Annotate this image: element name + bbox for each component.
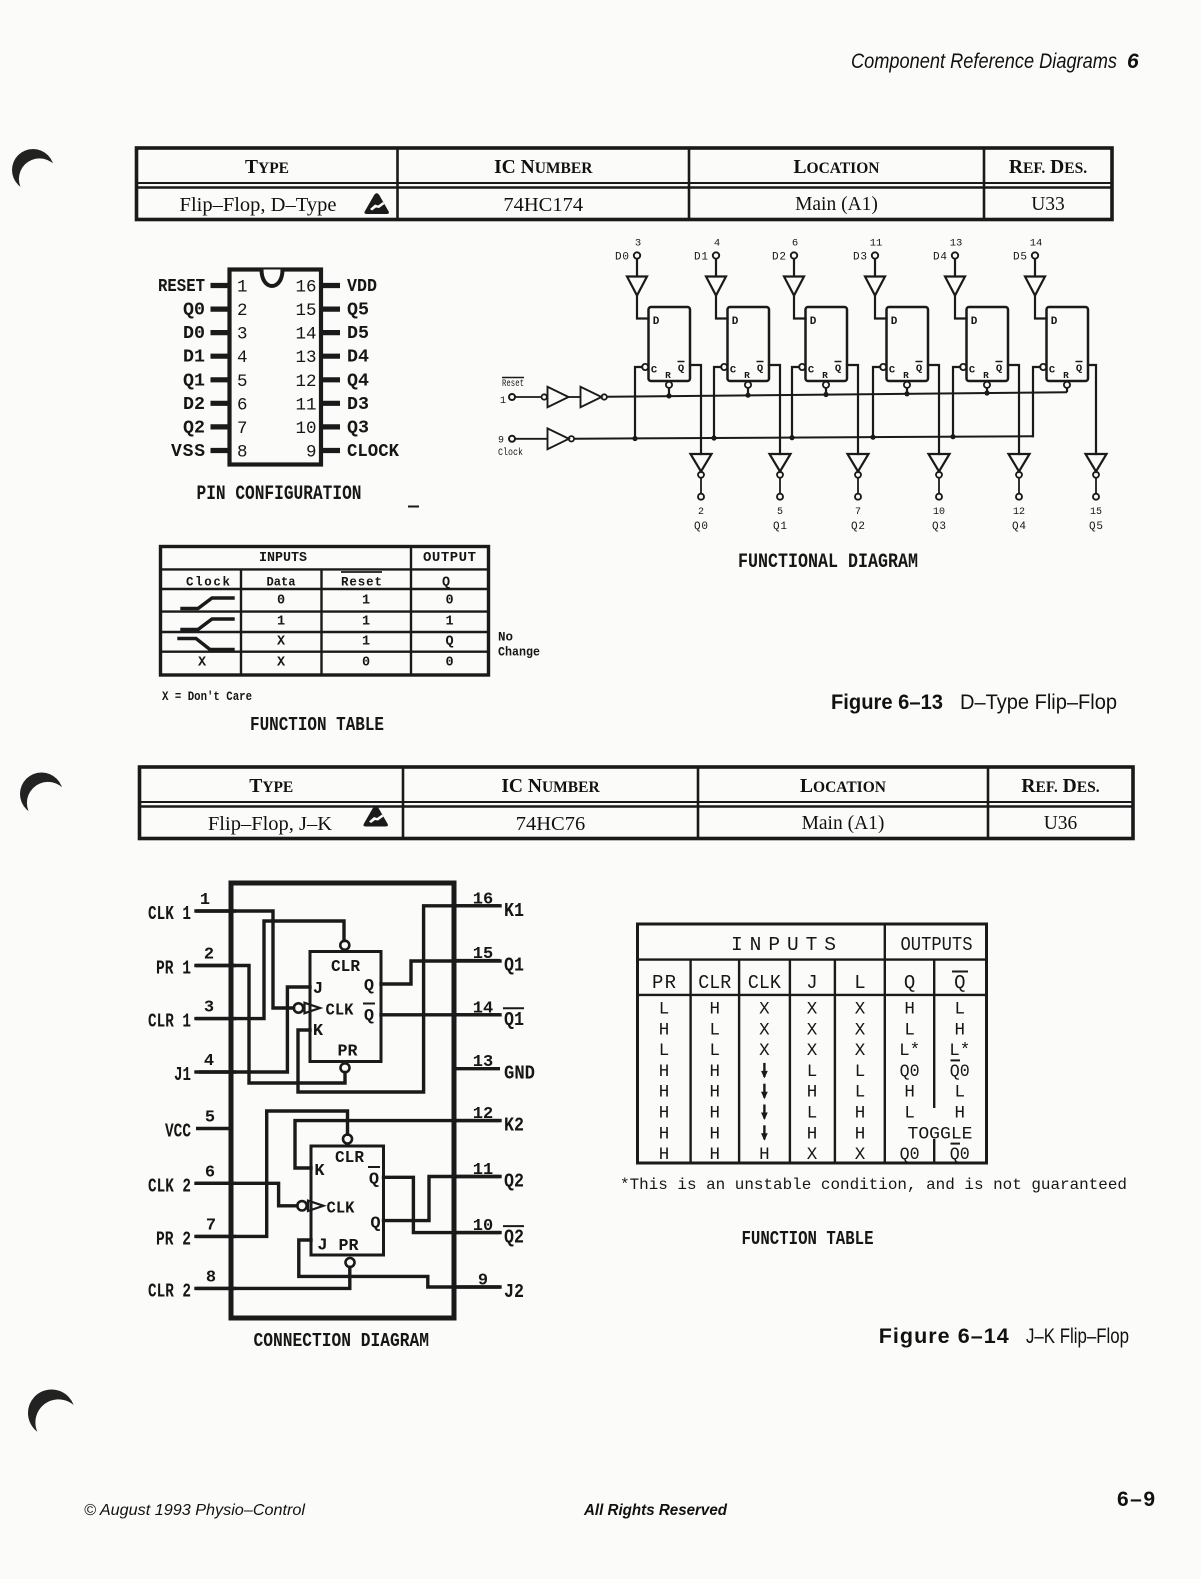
wire clock input to buffer: [515, 438, 547, 440]
svg-text:L*: L*: [949, 1041, 970, 1061]
svg-text:CLR 1: CLR 1: [148, 1011, 191, 1033]
svg-text:Reset: Reset: [341, 576, 382, 590]
svg-text:OUTPUT: OUTPUT: [423, 550, 476, 566]
pin 14 Q-bar lead: [452, 999, 525, 1031]
node Clock input (pin 9): [498, 436, 523, 460]
svg-text:CLR 2: CLR 2: [148, 1280, 191, 1302]
svg-text:X: X: [855, 1145, 866, 1165]
note X dont care: [162, 689, 252, 704]
caption PIN CONFIGURATION: [197, 483, 420, 507]
svg-text:L: L: [807, 1104, 818, 1124]
svg-text:C: C: [889, 365, 896, 377]
pin 13 GND lead: [452, 1053, 536, 1085]
svg-text:4: 4: [237, 348, 248, 368]
svg-text:Figure 6–13: Figure 6–13: [831, 690, 943, 714]
svg-text:C: C: [730, 365, 737, 377]
buffer U-A reset (input bubble): [542, 387, 569, 407]
svg-text:PR 2: PR 2: [156, 1228, 191, 1250]
wire clock bus: [574, 436, 1033, 438]
svg-text:D0: D0: [183, 324, 205, 344]
junction reset bus stage 2: [823, 392, 828, 397]
pin 9 CLOCK: [306, 442, 399, 463]
pin 13 D4: [295, 348, 369, 369]
svg-text:X: X: [198, 656, 207, 671]
svg-text:X: X: [807, 1020, 818, 1040]
svg-text:D3: D3: [853, 252, 867, 264]
svg-text:Q4: Q4: [347, 371, 369, 391]
node Q5 output (pin 15): [1089, 494, 1103, 533]
node Q3 output (pin 10): [932, 494, 946, 533]
wire clock bus to C of FF1: [714, 367, 721, 438]
buffer D0 input: [627, 277, 647, 296]
svg-text:Q0: Q0: [900, 1062, 920, 1082]
wire reset bus to R of FF3: [906, 388, 908, 394]
svg-text:D4: D4: [347, 348, 369, 368]
svg-text:Q: Q: [364, 1007, 374, 1026]
node D3 input (pin 11): [853, 238, 882, 264]
svg-text:4: 4: [714, 238, 720, 250]
wire CLK1 pin1 to FF1 clock: [196, 911, 294, 1008]
pin 12 K2 lead: [452, 1105, 525, 1137]
J-K function table: [638, 924, 987, 1165]
svg-text:REF. DES.: REF. DES.: [1021, 776, 1099, 797]
svg-text:PIN CONFIGURATION: PIN CONFIGURATION: [197, 483, 362, 506]
svg-text:Flip–Flop, D–Type: Flip–Flop, D–Type: [180, 194, 337, 216]
svg-text:H: H: [710, 1145, 721, 1165]
pin 9 J2 lead: [452, 1272, 525, 1304]
svg-text:12: 12: [295, 372, 316, 392]
svg-text:D: D: [732, 316, 739, 328]
svg-text:Q: Q: [445, 635, 453, 650]
note unstable condition: [620, 1176, 1127, 1194]
svg-text:U33: U33: [1031, 194, 1065, 215]
svg-text:INPUTS: INPUTS: [259, 550, 307, 566]
svg-text:H: H: [855, 1104, 866, 1124]
svg-text:CLK: CLK: [748, 972, 782, 994]
svg-text:7: 7: [855, 507, 861, 518]
svg-text:VCC: VCC: [165, 1121, 191, 1143]
pin 8 CLR 2 lead: [148, 1268, 236, 1302]
svg-text:8: 8: [206, 1268, 216, 1287]
svg-text:L: L: [904, 1020, 915, 1040]
svg-text:L*: L*: [899, 1041, 920, 1061]
svg-text:Component Reference Diagrams: Component Reference Diagrams: [851, 50, 1117, 73]
svg-text:Main (A1): Main (A1): [795, 194, 878, 215]
wire Q output of FF4 to inverter: [1008, 365, 1019, 454]
svg-text:L: L: [904, 1104, 915, 1124]
svg-text:TYPE: TYPE: [245, 157, 289, 178]
svg-text:CLR: CLR: [698, 972, 731, 994]
wire D2 to buffer: [793, 259, 795, 277]
scan artifact crescent top-left: [12, 149, 60, 200]
svg-text:Main (A1): Main (A1): [802, 813, 885, 834]
wire CLK2 pin6 to FF2 clock: [196, 1183, 297, 1206]
svg-text:C: C: [1049, 365, 1056, 377]
svg-text:IC NUMBER: IC NUMBER: [501, 776, 600, 797]
D flip-flop stage 1: [721, 307, 769, 388]
inverter Q3 output: [929, 454, 950, 478]
svg-text:H: H: [659, 1145, 670, 1165]
buffer U-B reset (output bubble): [581, 387, 607, 407]
svg-text:H: H: [710, 1062, 721, 1082]
wire CLR2 pin8 to FF2 bottom bubble: [196, 1267, 350, 1288]
svg-text:Q1: Q1: [183, 371, 205, 391]
wire reset bus to R of FF0: [668, 388, 670, 396]
pin 11 D3: [295, 395, 369, 416]
junction clock bus stage 4: [950, 434, 955, 439]
svg-text:Q: Q: [954, 972, 965, 994]
svg-text:X: X: [277, 656, 286, 671]
svg-text:J–K Flip–Flop: J–K Flip–Flop: [1026, 1324, 1129, 1348]
node Q1 output (pin 5): [773, 494, 787, 533]
pin 2 Q0: [183, 301, 248, 322]
svg-text:0: 0: [277, 594, 285, 609]
svg-text:Q2: Q2: [504, 1227, 524, 1249]
svg-text:6: 6: [792, 238, 798, 250]
svg-text:LOCATION: LOCATION: [794, 157, 880, 178]
svg-text:14: 14: [295, 325, 316, 345]
svg-text:© August 1993 Physio–Control: © August 1993 Physio–Control: [84, 1502, 305, 1519]
svg-text:D1: D1: [694, 252, 708, 264]
wire inverter to output pad Q5: [1095, 478, 1097, 494]
svg-text:X: X: [277, 635, 286, 650]
svg-text:Clock: Clock: [186, 576, 230, 590]
wire D5 to buffer: [1034, 259, 1036, 277]
wire inverter to output pad Q1: [779, 478, 781, 494]
svg-text:1: 1: [445, 615, 453, 630]
wire reset bus to R of FF4: [986, 388, 988, 393]
pin 6 D2: [183, 395, 248, 416]
svg-text:CLK 1: CLK 1: [148, 903, 191, 925]
svg-text:D: D: [971, 316, 978, 328]
D-type function table: [161, 547, 489, 676]
wire buffer to D input of FF2: [794, 296, 806, 319]
svg-text:PR: PR: [652, 972, 676, 994]
wire Q output of FF0 to inverter: [690, 365, 701, 454]
note no change: [498, 631, 540, 660]
svg-text:TYPE: TYPE: [249, 776, 293, 797]
svg-text:J2: J2: [504, 1281, 524, 1303]
svg-text:U36: U36: [1044, 813, 1078, 834]
svg-text:L: L: [955, 1000, 966, 1020]
svg-text:H: H: [855, 1124, 866, 1144]
svg-text:Q: Q: [442, 576, 450, 591]
inverter Q0 output: [691, 454, 712, 478]
wire Q output of FF5 to inverter: [1088, 365, 1096, 454]
svg-text:L: L: [710, 1020, 721, 1040]
svg-text:D1: D1: [183, 348, 205, 368]
svg-text:11: 11: [295, 395, 316, 415]
svg-text:D5: D5: [347, 324, 369, 344]
wire clock bus to C of FF4: [953, 367, 960, 437]
pin 5 VCC lead: [165, 1109, 234, 1143]
svg-text:Figure 6–14: Figure 6–14: [879, 1324, 1009, 1348]
svg-text:1: 1: [362, 615, 370, 630]
svg-text:All Rights Reserved: All Rights Reserved: [583, 1502, 728, 1519]
table: D-type flip-flop IC info (U33): [137, 148, 1113, 220]
svg-text:H: H: [710, 1083, 721, 1103]
D flip-flop stage 4: [960, 307, 1008, 388]
svg-text:D4: D4: [933, 252, 947, 264]
pin 10 Q3: [295, 418, 369, 439]
IC U36 74HC76 outline: [231, 883, 454, 1318]
pin 4 J1 lead: [174, 1052, 236, 1086]
svg-text:6–9: 6–9: [1117, 1488, 1157, 1511]
scan artifact crescent bottom-left: [28, 1390, 82, 1446]
node D1 input (pin 4): [694, 238, 720, 264]
svg-text:R: R: [903, 370, 909, 381]
svg-text:H: H: [759, 1145, 770, 1165]
svg-text:X: X: [807, 1041, 818, 1061]
pin 16 VDD: [295, 277, 377, 298]
wire buffer to D input of FF0: [637, 296, 649, 319]
wire FF1 Q-bar to pin14: [381, 1013, 500, 1016]
svg-text:C: C: [651, 365, 658, 377]
svg-text:H: H: [659, 1124, 670, 1144]
svg-text:H: H: [904, 1000, 915, 1020]
wire PR2 pin7 to FF2 top bubble: [196, 1111, 348, 1236]
svg-text:FUNCTION TABLE: FUNCTION TABLE: [742, 1228, 874, 1250]
inverter Q5 output: [1086, 454, 1107, 478]
footer: [84, 1488, 1157, 1519]
inverter Q2 output: [848, 454, 869, 478]
wire Q output of FF2 to inverter: [847, 365, 858, 454]
svg-text:2: 2: [237, 301, 248, 321]
svg-text:L: L: [854, 972, 865, 994]
svg-text:Clock: Clock: [498, 447, 523, 459]
svg-text:C: C: [969, 365, 976, 377]
svg-text:D3: D3: [347, 395, 369, 415]
svg-text:0: 0: [362, 656, 370, 671]
pin 11 Q2 lead: [452, 1161, 525, 1193]
svg-text:X: X: [759, 1041, 770, 1061]
wire buffer to D input of FF3: [875, 296, 887, 319]
svg-text:X: X: [807, 1000, 818, 1020]
svg-text:12: 12: [1013, 507, 1025, 518]
wire J1 pin4 to FF1 J: [196, 987, 310, 1072]
caption CONNECTION DIAGRAM: [254, 1330, 430, 1352]
svg-text:Q: Q: [904, 972, 915, 994]
wire clock bus to C of FF5: [1033, 367, 1040, 436]
svg-text:J: J: [806, 972, 817, 994]
wire clock bus to C of FF3: [873, 367, 880, 437]
svg-text:9: 9: [306, 443, 317, 463]
junction clock bus stage 1: [711, 435, 716, 440]
svg-text:H: H: [710, 1000, 721, 1020]
svg-text:1: 1: [200, 891, 210, 910]
wire inverter to output pad Q3: [938, 478, 940, 494]
svg-text:6: 6: [1127, 50, 1139, 73]
pin 4 D1: [183, 348, 248, 369]
svg-text:H: H: [710, 1104, 721, 1124]
svg-text:L: L: [855, 1083, 866, 1103]
svg-text:D: D: [810, 316, 817, 328]
svg-text:X: X: [807, 1145, 818, 1165]
junction reset bus stage 1: [745, 393, 750, 398]
svg-text:Q0: Q0: [950, 1145, 970, 1165]
svg-text:Q: Q: [916, 363, 922, 375]
pin 8 VSS: [171, 442, 248, 463]
wire K2 pin12 to FF2 K: [295, 1121, 500, 1168]
svg-text:J: J: [313, 980, 323, 999]
svg-text:D: D: [1051, 316, 1058, 328]
pin 16 K1 lead: [452, 890, 525, 922]
inverter Q4 output: [1009, 454, 1030, 478]
svg-text:R: R: [665, 370, 671, 381]
svg-text:Q0: Q0: [950, 1062, 970, 1082]
IC U33 74HC174 DIP-16 package body: [230, 270, 322, 465]
svg-text:8: 8: [237, 443, 248, 463]
svg-text:Q3: Q3: [347, 418, 369, 438]
wire PR1 pin2 to FF1 preset: [196, 966, 345, 1084]
svg-text:Data: Data: [267, 576, 296, 590]
svg-text:VDD: VDD: [347, 277, 377, 297]
buffer D5 input: [1025, 277, 1045, 296]
svg-text:D5: D5: [1013, 252, 1027, 264]
wire reset bus to R of FF1: [747, 388, 749, 395]
wire FF2 Q to pin11: [384, 1177, 501, 1221]
pin 3 CLR 1 lead: [148, 999, 236, 1033]
svg-text:16: 16: [295, 278, 316, 298]
svg-text:D2: D2: [772, 252, 786, 264]
pin 7 PR 2 lead: [156, 1216, 236, 1250]
svg-text:2: 2: [204, 946, 214, 965]
caption FUNCTIONAL DIAGRAM: [738, 551, 918, 574]
svg-text:11: 11: [870, 238, 883, 250]
svg-text:X: X: [855, 1000, 866, 1020]
svg-text:15: 15: [1090, 507, 1102, 518]
svg-text:X = Don't Care: X = Don't Care: [162, 689, 252, 704]
svg-text:Q2: Q2: [183, 418, 205, 438]
svg-text:7: 7: [206, 1216, 216, 1235]
pin 12 Q4: [295, 371, 369, 392]
D flip-flop stage 0: [642, 307, 690, 388]
figure caption 6-13: [831, 690, 1117, 714]
svg-text:X: X: [759, 1020, 770, 1040]
svg-text:J: J: [317, 1237, 327, 1256]
svg-text:14: 14: [1030, 238, 1043, 250]
svg-text:L: L: [659, 1000, 670, 1020]
svg-text:Q1: Q1: [504, 955, 524, 977]
wire K1 pin16 to FF1 K: [298, 906, 500, 1092]
svg-text:6: 6: [205, 1163, 215, 1182]
wire buffer to D input of FF4: [955, 296, 967, 319]
svg-text:IC NUMBER: IC NUMBER: [494, 157, 593, 178]
svg-text:H: H: [710, 1124, 721, 1144]
node D0 input (pin 3): [615, 238, 641, 264]
svg-text:1: 1: [237, 278, 248, 298]
wire CLR1 pin3 to FF1 clear: [196, 921, 344, 1019]
svg-text:TOGGLE: TOGGLE: [908, 1124, 973, 1144]
svg-text:D–Type Flip–Flop: D–Type Flip–Flop: [960, 690, 1117, 714]
svg-text:Reset: Reset: [502, 379, 524, 390]
wire D0 to buffer: [636, 259, 638, 277]
svg-text:6: 6: [237, 395, 248, 415]
svg-text:1: 1: [362, 594, 370, 609]
svg-text:3: 3: [204, 999, 214, 1018]
svg-text:1: 1: [362, 635, 370, 650]
svg-text:10: 10: [933, 507, 945, 518]
svg-text:H: H: [659, 1062, 670, 1082]
svg-text:Q5: Q5: [1089, 521, 1103, 533]
pin 1 RESET: [158, 277, 248, 298]
svg-text:Q: Q: [369, 1171, 379, 1190]
pin 5 Q1: [183, 371, 248, 392]
svg-text:Q0: Q0: [900, 1145, 920, 1165]
svg-text:No: No: [498, 631, 513, 645]
svg-text:0: 0: [445, 594, 453, 609]
svg-text:L: L: [955, 1083, 966, 1103]
svg-text:3: 3: [635, 238, 641, 250]
svg-text:LOCATION: LOCATION: [800, 776, 886, 797]
svg-text:K: K: [314, 1162, 325, 1181]
svg-text:FUNCTIONAL DIAGRAM: FUNCTIONAL DIAGRAM: [738, 551, 918, 574]
svg-text:CLR: CLR: [331, 958, 361, 977]
svg-text:15: 15: [295, 301, 316, 321]
svg-text:H: H: [659, 1083, 670, 1103]
svg-text:0: 0: [445, 656, 453, 671]
svg-text:Q2: Q2: [504, 1171, 524, 1193]
svg-text:5: 5: [777, 507, 783, 518]
node D4 input (pin 13): [933, 238, 962, 264]
svg-text:C: C: [808, 365, 815, 377]
svg-text:R: R: [983, 370, 989, 381]
inverter Q1 output: [770, 454, 791, 478]
wire FF2 Q-bar to pin10: [384, 1177, 501, 1232]
buffer U-C clock: [548, 428, 575, 449]
buffer D1 input: [706, 277, 726, 296]
svg-text:PR 1: PR 1: [156, 958, 191, 980]
wire Q output of FF1 to inverter: [769, 365, 780, 454]
wire buffer to D input of FF5: [1035, 296, 1047, 319]
svg-text:K2: K2: [504, 1115, 524, 1137]
svg-text:L: L: [710, 1041, 721, 1061]
pin 15 Q1 lead: [452, 945, 525, 977]
wire inverter to output pad Q4: [1018, 478, 1020, 494]
node D5 input (pin 14): [1013, 238, 1042, 264]
buffer D4 input: [945, 277, 965, 296]
node Reset input (pin 1): [500, 378, 524, 408]
svg-text:H: H: [955, 1104, 966, 1124]
wire reset input to buffer: [515, 396, 542, 398]
svg-text:74HC76: 74HC76: [516, 813, 585, 835]
buffer D2 input: [784, 277, 804, 296]
svg-text:1: 1: [500, 396, 506, 407]
junction reset bus stage 0: [666, 393, 671, 398]
svg-text:H: H: [807, 1124, 818, 1144]
wire clock bus to C of FF2: [792, 367, 799, 438]
svg-text:5: 5: [205, 1109, 215, 1128]
svg-text:X: X: [855, 1041, 866, 1061]
svg-text:K1: K1: [504, 900, 524, 922]
svg-text:5: 5: [237, 372, 248, 392]
node Q4 output (pin 12): [1012, 494, 1026, 533]
svg-text:CLR: CLR: [335, 1149, 365, 1168]
svg-text:RESET: RESET: [158, 277, 205, 297]
svg-text:R: R: [822, 370, 828, 381]
svg-text:L: L: [807, 1062, 818, 1082]
svg-text:7: 7: [237, 419, 248, 439]
wire clock bus to C of FF0: [635, 367, 642, 439]
svg-text:D: D: [891, 316, 898, 328]
wire Q output of FF3 to inverter: [928, 365, 939, 454]
junction clock bus stage 3: [870, 435, 875, 440]
svg-text:X: X: [855, 1020, 866, 1040]
svg-text:INPUTS: INPUTS: [731, 934, 836, 956]
D flip-flop stage 5: [1040, 307, 1088, 388]
node Q0 output (pin 2): [694, 494, 708, 533]
pin 10 Q-bar lead: [452, 1217, 525, 1249]
